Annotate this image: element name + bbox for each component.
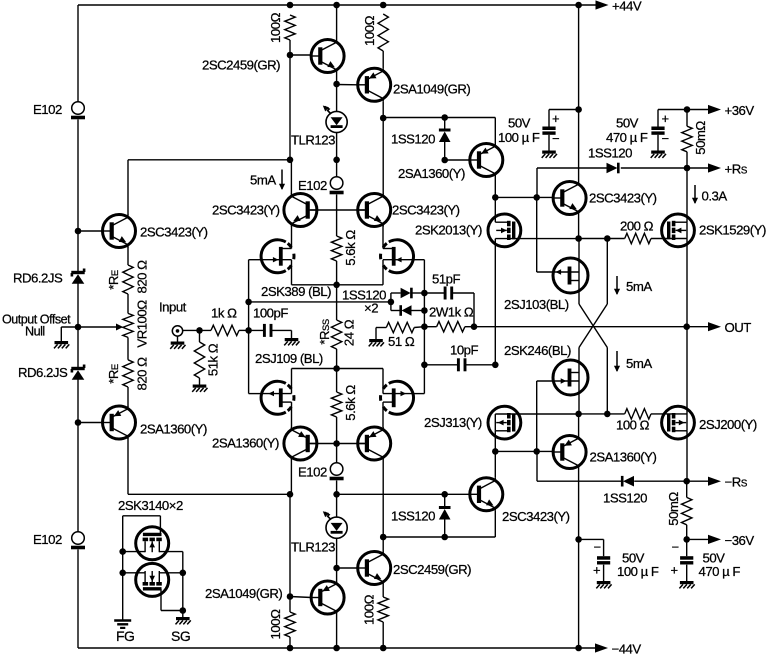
node +Rs junction	[684, 165, 691, 172]
wire cap470b lead	[686, 539, 688, 556]
resistor 51kohm	[194, 342, 204, 378]
node gate bus top	[492, 194, 499, 201]
svg-text:−: −	[552, 131, 559, 146]
wire K1529 inner spine	[686, 222, 688, 238]
svg-text:50V: 50V	[508, 116, 531, 131]
arrow +36V	[708, 105, 721, 114]
wire 2SA1360 top collector down	[494, 177, 496, 198]
node rail junction R100c	[287, 645, 294, 652]
wire 2W1k left lead	[424, 326, 436, 328]
wire bias top run	[383, 117, 495, 119]
transistor pair-right 2SC3423	[358, 194, 391, 227]
transistor 2SA1360 bottom-right	[553, 436, 586, 469]
node J109 drain junction	[333, 365, 340, 372]
wire K389a gate out	[249, 259, 261, 261]
transistor 2SC2459 bottom	[358, 552, 391, 585]
node 100ohm tap	[604, 411, 611, 418]
arrow OUT	[708, 322, 721, 331]
svg-text:2SJ200(Y): 2SJ200(Y)	[699, 417, 757, 432]
svg-text:5mA: 5mA	[626, 356, 652, 371]
wire 10pF lead left	[424, 364, 458, 366]
wire 5.6k1 top lead	[336, 210, 338, 236]
CRD E102 top-left	[71, 102, 85, 118]
wire bias bottom run	[383, 536, 495, 538]
node 51pF right junction	[471, 323, 478, 330]
node base 2SC2459 top	[287, 52, 294, 59]
wire 10pF lead right	[465, 364, 495, 366]
node K3140 right mid	[180, 570, 187, 577]
wire J200 source stub	[673, 430, 687, 432]
node K3140 left upper	[119, 548, 126, 555]
wire input bus up	[248, 260, 250, 331]
wire K3140 u-left stub	[123, 551, 145, 553]
wire 2459b emitter down	[382, 585, 384, 598]
svg-text:1SS120: 1SS120	[603, 491, 647, 506]
diode 1SS120 bottom	[439, 508, 451, 520]
ground cap470 bottom	[679, 583, 694, 589]
svg-text:2SK1529(Y): 2SK1529(Y)	[699, 223, 766, 238]
node -36V junction	[683, 536, 690, 543]
wire LED bottom top lead	[336, 494, 338, 517]
wire K3140 lower gate run	[161, 610, 183, 612]
wire 100pF lead right	[271, 329, 292, 331]
svg-text:−: −	[594, 540, 601, 555]
JFET 2SK246 current source	[553, 360, 588, 395]
wire pair bottom base tie	[310, 443, 365, 445]
node bus cap tap bottom	[575, 536, 582, 543]
arrow -44V	[595, 643, 608, 652]
svg-text:100Ω: 100Ω	[362, 15, 377, 46]
svg-text:+: +	[671, 563, 678, 578]
wire base node down long bottom	[289, 494, 291, 596]
wire 200ohm to K1529 gate	[651, 238, 687, 240]
ground cap470 top	[651, 152, 666, 158]
node clamp left junction	[388, 299, 395, 306]
svg-text:2SK2013(Y): 2SK2013(Y)	[415, 223, 482, 238]
wire K1529 drain stub	[673, 221, 687, 223]
resistor 100ohm top-right	[378, 14, 388, 51]
wire QBR collector down	[578, 469, 580, 540]
wire 5.6k2 top lead	[336, 369, 338, 393]
wire K246 gate from tap	[537, 380, 553, 382]
wire R100a to base node	[289, 40, 291, 55]
wire 100pF lead left	[249, 329, 265, 331]
svg-text:−: −	[662, 131, 669, 146]
arrow 5mA top-center	[279, 170, 285, 191]
wire R100c to rail	[289, 637, 291, 648]
wire K3140 u-right stub	[159, 551, 183, 553]
wire J103 inner spine	[578, 272, 580, 281]
wire +Rs left segment	[537, 167, 607, 169]
wire Rss top lead	[336, 285, 338, 320]
wire J109a drain up	[291, 369, 293, 394]
LED TLR123 top	[323, 106, 347, 133]
wire K246 gate drop	[536, 381, 538, 451]
MOSFET 2SK3140 lower	[136, 563, 169, 596]
diode 1SS120 +Rs	[607, 163, 619, 174]
node base of Q 2SA1360 left	[75, 419, 82, 426]
wire diode 1SS120b top lead	[444, 494, 446, 507]
wire J200 drain up	[686, 327, 688, 414]
node base 2SA1049 top	[333, 81, 340, 88]
wire K3140 left bus	[122, 516, 124, 620]
wire jack ground drop	[177, 336, 179, 341]
ground 51ohm	[369, 341, 384, 347]
wire E102b upper lead	[336, 444, 338, 463]
wire 51k to ground	[199, 378, 201, 385]
ground 51k	[192, 386, 207, 392]
svg-text:2SC3423(Y): 2SC3423(Y)	[392, 203, 460, 218]
wire 2W1k to OUT node	[470, 326, 474, 328]
svg-text:TLR123: TLR123	[291, 540, 335, 555]
wire J103 gate drop	[536, 197, 538, 272]
node long bias wire at LED	[333, 157, 340, 164]
wire K389b source down	[382, 260, 384, 285]
wire right bus bottom segment	[578, 539, 580, 648]
wire 50m to -36 node	[686, 525, 688, 540]
node 51k tap	[196, 327, 203, 334]
ground FG	[114, 621, 131, 628]
CRD E102 bottom-left	[71, 532, 85, 548]
svg-text:51 Ω: 51 Ω	[388, 334, 415, 349]
svg-text:2SJ109 (BL): 2SJ109 (BL)	[255, 351, 323, 366]
svg-text:+: +	[662, 111, 669, 126]
wire K3140 box top	[123, 515, 161, 517]
wire 2459b collector up	[382, 537, 384, 552]
svg-text:2SA1360(Y): 2SA1360(Y)	[590, 450, 657, 465]
wire jack to R1k	[183, 329, 211, 331]
wire left bus upper segment	[77, 5, 79, 102]
node diode 1SS120 bottom tap	[441, 534, 448, 541]
wire long bias top to base	[445, 159, 471, 161]
pot wiper arrow	[78, 326, 117, 328]
node 50m top	[684, 106, 691, 113]
wire 2459 emitter	[336, 73, 338, 85]
transistor pair-right 2SA1360	[358, 427, 391, 460]
node base wire 2SA1360 top	[441, 157, 448, 164]
svg-text:−44V: −44V	[612, 642, 642, 657]
svg-text:50V: 50V	[616, 116, 639, 131]
arrow 5mA upper-right	[614, 276, 620, 295]
wire pairL emitter up	[291, 402, 293, 427]
JFET 2SJ103 current source	[553, 258, 588, 293]
wire 51ohm right lead	[414, 326, 424, 329]
svg-text:51k Ω: 51k Ω	[206, 343, 221, 376]
wire pair-left emitter down	[291, 226, 293, 249]
MOSFET 2SJ313 driver bottom	[488, 406, 521, 439]
svg-text:2SK3140×2: 2SK3140×2	[118, 498, 183, 513]
resistor Rss 24ohm	[331, 320, 341, 349]
diode 1SS120 clamp lower	[401, 305, 412, 316]
node base 2SA1049 bottom	[287, 593, 294, 600]
resistor 2W1kohm	[437, 322, 465, 332]
wire to E102 mid-top	[336, 160, 338, 177]
arrow +Rs	[708, 163, 721, 172]
transistor 2SA1049 bottom	[311, 581, 344, 614]
resistor RE2 820ohm	[123, 360, 133, 387]
node rail junction R100b	[380, 2, 387, 9]
transistor 2SA1360 top	[470, 144, 503, 177]
svg-text:2SC2459(GR): 2SC2459(GR)	[393, 562, 471, 577]
wire long wire y494 segment	[337, 493, 445, 495]
wire left bus to zener RD1	[77, 231, 79, 271]
svg-text:Null: Null	[25, 325, 45, 339]
svg-text:+: +	[593, 563, 600, 578]
svg-text:+44V: +44V	[612, 0, 642, 14]
wire 51k top lead	[199, 330, 201, 342]
svg-text:SG: SG	[171, 628, 190, 644]
wire 1049 collector down	[382, 101, 384, 118]
wire X diagonal B	[579, 304, 607, 348]
CRD E102 mid-bottom	[330, 463, 344, 479]
svg-text:0.3A: 0.3A	[702, 189, 728, 204]
wire gate bus through K2013	[494, 197, 496, 222]
arrow -Rs	[708, 477, 721, 486]
wire 51pF drop	[473, 293, 475, 327]
node base of Q 2SC3423 left	[75, 228, 82, 235]
ground 100pF	[284, 340, 299, 346]
svg-text:2SC3423(Y): 2SC3423(Y)	[140, 225, 208, 240]
wire J200 inner spine	[686, 414, 688, 431]
MOSFET 2SK2013 driver top	[488, 214, 521, 247]
wire feedback bottom run	[128, 493, 291, 495]
node rail junction R100d	[380, 645, 387, 652]
wire cap100 top lead	[548, 110, 550, 127]
svg-text:50mΩ: 50mΩ	[666, 492, 681, 526]
wire left bus to E102 bottom	[77, 423, 79, 532]
node -Rs junction	[683, 478, 690, 485]
wire J200 source down	[686, 431, 688, 481]
diode 1SS120 top	[439, 130, 451, 142]
svg-text:E102: E102	[298, 465, 327, 480]
wire J109b gate out	[414, 393, 425, 395]
node fb at OUT line	[421, 323, 428, 330]
node base 2SC2459 bottom	[333, 565, 340, 572]
svg-text:E102: E102	[33, 102, 62, 117]
ground input jack	[170, 343, 185, 349]
wire K3140 gate top lead	[159, 516, 161, 535]
wire 1k to node	[239, 329, 249, 331]
wire K3140 right bus	[182, 552, 184, 617]
wire -Rs right segment	[634, 480, 713, 482]
wire J313 bottom stub	[495, 430, 507, 432]
wire diode to base wire	[444, 142, 446, 160]
node OUT junction	[683, 323, 690, 330]
wire 51ohm left lead	[376, 327, 386, 329]
wire LED top lead	[336, 84, 338, 112]
wire 200line down to X	[606, 239, 608, 305]
wire Rss bottom lead	[336, 349, 338, 369]
wire wiper ground drop	[60, 327, 62, 341]
CRD E102 mid-top	[330, 177, 344, 193]
wire QTR emitter down	[578, 215, 580, 239]
zener RD6.2JS upper	[71, 269, 84, 284]
svg-text:E102: E102	[33, 532, 62, 547]
svg-text:TLR123: TLR123	[291, 133, 335, 148]
svg-text:OUT: OUT	[725, 320, 752, 335]
input jack	[172, 326, 182, 336]
wire feedback top run	[128, 159, 291, 161]
svg-text:+36V: +36V	[725, 103, 755, 118]
svg-text:2SK246(BL): 2SK246(BL)	[504, 343, 571, 358]
potentiometer VR100 body	[123, 313, 133, 337]
wire 100line up to X	[606, 348, 608, 414]
svg-text:E102: E102	[298, 178, 327, 193]
wire J109 drain tie	[292, 368, 384, 370]
wire left bus E102 to base node	[77, 120, 79, 232]
svg-text:2SJ103(BL): 2SJ103(BL)	[504, 297, 569, 312]
wire 50m top lead	[686, 110, 688, 127]
wire cap100 to ground	[548, 135, 550, 151]
wire 100pF ground drop	[291, 330, 293, 338]
svg-text:100 Ω: 100 Ω	[616, 418, 650, 433]
node clamp tap left	[245, 299, 252, 306]
wire lower driver segment	[579, 413, 625, 415]
svg-text:200 Ω: 200 Ω	[620, 219, 654, 234]
capacitor 470uF top	[651, 127, 664, 135]
wire pair base tie	[310, 209, 365, 211]
wire 50m bottom lead upper	[686, 481, 688, 497]
svg-text:RD6.2JS: RD6.2JS	[18, 365, 68, 380]
node clamp right upper	[421, 290, 428, 297]
svg-text:5mA: 5mA	[250, 173, 276, 188]
svg-text:2SJ313(Y): 2SJ313(Y)	[424, 415, 482, 430]
wire +36V run	[658, 109, 713, 111]
wire wiper node to zener RD2	[77, 327, 79, 367]
node long wire at E102b	[333, 491, 340, 498]
svg-text:1SS120: 1SS120	[391, 132, 435, 147]
wire E102 to pair bases	[336, 195, 338, 211]
JFET 2SJ109b input	[381, 381, 414, 414]
resistor 100ohm bottom-left	[285, 612, 295, 637]
wire base lead 2SA1049 top	[337, 84, 358, 86]
svg-text:2SA1360(Y): 2SA1360(Y)	[212, 436, 279, 451]
wire +Rs right segment	[621, 167, 713, 169]
wire driver line segment	[579, 238, 625, 240]
wire Q1 emitter down	[127, 247, 129, 265]
svg-text:RD6.2JS: RD6.2JS	[13, 271, 63, 286]
wire base lead 2459b	[337, 567, 358, 569]
transistor Q1 2SC3423 left	[103, 215, 136, 248]
wire K1529 source down	[686, 239, 688, 327]
MOSFET 2SK3140 upper	[136, 527, 169, 560]
svg-text:+: +	[552, 111, 559, 126]
resistor 5.6k upper	[331, 236, 341, 261]
node base wire QB	[441, 491, 448, 498]
wire +Rs corner drop	[536, 168, 538, 197]
node bus at bottom rail	[575, 645, 582, 652]
svg-text:820 Ω: 820 Ω	[135, 260, 150, 294]
svg-text:1k Ω: 1k Ω	[211, 306, 237, 321]
svg-text:2W1k Ω: 2W1k Ω	[429, 305, 474, 320]
capacitor 100pF	[264, 324, 271, 337]
transistor pair-left 2SC3423	[284, 194, 317, 227]
wire K389a source down	[291, 260, 293, 285]
wire RE1 to VR	[127, 294, 129, 313]
wire 50m bottom lead	[686, 152, 688, 168]
wire 100ohm to J200 gate	[651, 413, 687, 415]
wire K3140 l-left stub	[123, 572, 145, 574]
LED TLR123 bottom	[323, 511, 347, 538]
ground cap100 top	[542, 152, 557, 158]
node feedback bottom junction	[287, 491, 294, 498]
wire clamp DL lead	[391, 310, 401, 312]
wire clamp left down	[390, 302, 392, 311]
svg-text:5mA: 5mA	[626, 279, 652, 294]
svg-text:2SA1049(GR): 2SA1049(GR)	[393, 82, 470, 97]
transistor pair-left 2SA1360	[284, 427, 317, 460]
wire base lead 2SC2459 top	[290, 54, 312, 56]
svg-text:2SA1360(Y): 2SA1360(Y)	[398, 166, 465, 181]
svg-text:100pF: 100pF	[253, 306, 288, 321]
wire -36V run	[687, 538, 713, 540]
wire Q2 collector down	[127, 439, 129, 495]
wire K246 source down	[578, 381, 580, 414]
wire J313 source line	[495, 413, 578, 415]
svg-text:470 µ F: 470 µ F	[606, 130, 648, 145]
diode 1SS120 clamp upper	[401, 288, 412, 299]
node K389 source junction	[333, 282, 340, 289]
node VR wiper tap	[75, 324, 82, 331]
wire -Rs left segment	[537, 480, 622, 482]
ground cap100 bottom	[596, 583, 611, 589]
arrow -36V	[708, 535, 721, 544]
wire clamp DL to bus	[412, 310, 425, 312]
svg-text:FG: FG	[116, 628, 134, 644]
svg-text:1SS120: 1SS120	[391, 509, 435, 524]
capacitor 51pF	[445, 287, 452, 300]
svg-text:−: −	[672, 540, 679, 555]
wire clamp DU lead	[391, 292, 401, 294]
wire cap470b to ground	[686, 565, 688, 581]
svg-text:5.6k Ω: 5.6k Ω	[343, 230, 358, 266]
wire QBR emitter up	[578, 414, 580, 436]
ground SG	[176, 619, 191, 625]
node bias bottom junction	[380, 534, 387, 541]
svg-text:820 Ω: 820 Ω	[135, 357, 150, 391]
resistor 50mohm bottom	[682, 497, 692, 524]
JFET 2SK389b input	[381, 240, 414, 273]
wire cap100 to bus	[549, 109, 579, 111]
wire J109a gate out	[249, 393, 261, 395]
wire 51pF lead left	[424, 292, 445, 294]
wire clamp left up	[390, 293, 392, 302]
node fb at 10pF	[421, 362, 428, 369]
svg-text:2SC3423(Y): 2SC3423(Y)	[589, 191, 657, 206]
wire K1529 drain up	[686, 168, 688, 222]
wire wiper to ground corner	[61, 326, 78, 328]
wire cap470 top lead	[657, 110, 659, 127]
wire 1049b emitter up	[336, 568, 338, 581]
wire pair-right emitter down	[382, 226, 384, 249]
wire diode 1SS120 top lead	[444, 118, 446, 131]
ground at VR wiper	[54, 343, 69, 349]
svg-text:10pF: 10pF	[450, 343, 479, 358]
svg-text:−36V: −36V	[725, 533, 755, 548]
node J103 gate tap	[533, 194, 540, 201]
node gate bus bottom	[492, 448, 499, 455]
wire RE2 to Q2 emitter	[127, 387, 129, 407]
wire base lead Q1	[78, 230, 103, 232]
wire left bus bottom segment	[77, 550, 79, 649]
svg-text:Input: Input	[159, 300, 187, 315]
svg-text:470 µ F: 470 µ F	[699, 564, 741, 579]
wire right bus to QTR collector	[578, 110, 580, 182]
svg-text:100Ω: 100Ω	[362, 594, 377, 625]
transistor Q2 2SA1360 left	[103, 406, 136, 439]
wire 1049b collector down	[336, 614, 338, 648]
wire cap470 to ground	[657, 135, 659, 151]
